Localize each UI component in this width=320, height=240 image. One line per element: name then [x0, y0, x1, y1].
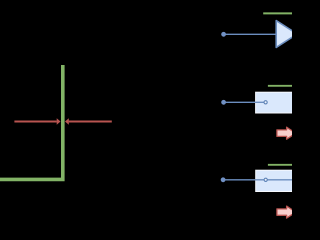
wire green short segment row 3 [268, 164, 292, 166]
wire blue edge row 1 with source node dot [221, 32, 275, 37]
red block arrow row 3 (clipped at right edge) [277, 206, 296, 218]
red block arrow row 2 (clipped at right edge) [277, 127, 296, 139]
rectangle shape row 3 (light blue, clipped at right edge) [256, 170, 298, 191]
wire red left segment with arrowhead pointing right at green bar [14, 118, 60, 125]
wire blue edge row 3 passing through rectangle with source node dot and open port circle [221, 177, 294, 182]
wire green short segment row 1 (top right) [263, 12, 294, 14]
wire blue edge row 2 with source node dot and open port circle [221, 100, 267, 105]
wire green short segment row 2 [268, 85, 294, 87]
rectangle shape row 2 (light blue, clipped at right edge) [256, 92, 298, 113]
wire red right segment with arrowhead pointing left at green bar [65, 118, 112, 125]
triangle shape U1 (play/arrow pointing right, clipped at edge) [276, 21, 297, 48]
wire green L-shaped (vertical bar and bottom-left horizontal run) [0, 65, 63, 179]
